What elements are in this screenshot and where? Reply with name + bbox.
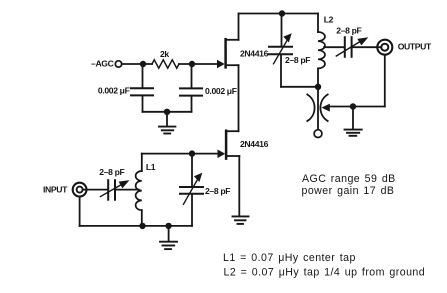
capacitor C1 bottom stub: [142, 96, 144, 112]
node output ground junction: [350, 103, 356, 109]
node tank top junction: [189, 150, 195, 156]
inductor L2 top lead: [317, 14, 319, 33]
svg-text:0.002 μF: 0.002 μF: [98, 85, 130, 95]
capacitor C3 2-8 pF drain tank: top stub: [281, 14, 283, 46]
wire C3 bottom to L2 bottom node: [281, 86, 318, 88]
feedthrough capacitor center lead: [317, 87, 319, 130]
node top rail junction: [279, 10, 285, 16]
wire C5 to L1 tap: [116, 189, 139, 191]
svg-text:2N4416: 2N4416: [240, 49, 269, 59]
svg-text:2N4416: 2N4416: [240, 139, 269, 149]
connector INPUT jack: [73, 183, 87, 197]
transistor Q2 drain stub: [226, 130, 238, 132]
wire AGC bypass rail: [143, 111, 192, 113]
transistor Q2 channel bar: [225, 131, 228, 159]
inductor L1 coil: [136, 171, 142, 210]
svg-text:INPUT: INPUT: [43, 184, 68, 194]
node L2 bottom junction: [315, 84, 321, 90]
svg-text:2–8 pF: 2–8 pF: [205, 186, 230, 196]
capacitor C3 adjust arrow: [274, 41, 288, 64]
wire output ground return: [329, 106, 385, 108]
wire Q2 source to ground: [238, 156, 240, 216]
wire AGC terminal to resistor: [122, 63, 152, 65]
svg-text:L1 = 0.07 μHy center tap: L1 = 0.07 μHy center tap: [223, 252, 356, 264]
svg-text:–AGC: –AGC: [91, 59, 114, 69]
node upper gate junction: [189, 61, 195, 67]
arrow into feedthrough: [322, 104, 330, 112]
transistor Q1 drain stub: [226, 39, 239, 41]
wire L1 top to gate node: [142, 153, 192, 155]
inductor L2 bottom lead: [317, 68, 319, 86]
wire Q1 source to Q2 drain: [238, 65, 240, 131]
transistor Q1 source stub: [226, 64, 239, 66]
ground Q2 source: [233, 215, 249, 217]
capacitor C1 plates: [131, 87, 153, 89]
AGC input terminal: [115, 61, 121, 67]
wire resistor to Q1 gate: [179, 63, 218, 65]
ground output: [352, 107, 354, 130]
capacitor C4 adjust arrow: [336, 41, 361, 56]
node L1 bottom junction: [139, 223, 145, 229]
svg-text:OUTPUT: OUTPUT: [398, 41, 432, 51]
capacitor C2 bottom stub: [191, 97, 193, 112]
wire C4 to output connector: [352, 46, 381, 48]
capacitor C3 bottom stub: [280, 55, 282, 87]
inductor L1 bottom lead: [141, 210, 143, 226]
svg-text:2–8 pF: 2–8 pF: [285, 55, 310, 65]
capacitor C6 bottom stub: [191, 195, 193, 226]
connector OUTPUT jack: [377, 40, 392, 55]
transistor Q2 source stub: [226, 155, 239, 157]
capacitor C1 0.002 uF left: top stub: [142, 64, 144, 87]
transistor Q2 2N4416 gate arrow: [218, 150, 226, 159]
capacitor C6 2-8 pF tank: top stub: [191, 154, 193, 187]
capacitor C3 plates: [269, 46, 292, 48]
wire gate node to Q2 gate: [192, 153, 218, 155]
transistor Q1 2N4416 gate arrow: [217, 60, 225, 69]
wire input jack to capacitor: [83, 189, 108, 191]
resistor 2k: [152, 60, 179, 68]
capacitor C5 2-8 pF input plates: [107, 180, 109, 200]
ground AGC: [166, 112, 168, 126]
ground input: [168, 226, 170, 241]
capacitor C5 adjust arrow: [100, 184, 122, 196]
svg-text:L2: L2: [324, 14, 334, 24]
svg-text:0.002 μF: 0.002 μF: [205, 86, 237, 96]
wire Q1 drain to top rail: [238, 14, 240, 40]
capacitor C6 adjust arrow: [184, 180, 198, 205]
inductor L1 top lead: [141, 154, 143, 171]
terminal supply open circle: [314, 130, 322, 138]
wire top rail: [239, 13, 319, 15]
capacitor C6 plates: [180, 186, 203, 188]
feedthrough capacitor right arc: [320, 95, 327, 122]
svg-text:2–8 pF: 2–8 pF: [336, 25, 361, 35]
wire input bottom rail: [80, 225, 192, 227]
node left RC junction: [140, 61, 146, 67]
feedthrough capacitor left arc: [307, 95, 314, 122]
svg-text:L2 = 0.07 μHy tap 1/4 up from: L2 = 0.07 μHy tap 1/4 up from ground: [224, 267, 426, 279]
capacitor C4 2-8 pF output plates: [344, 37, 346, 57]
svg-text:2–8 pF: 2–8 pF: [99, 167, 124, 177]
capacitor C2 plates: [180, 87, 202, 89]
inductor L2 coil: [318, 32, 325, 68]
svg-text:AGC range 59 dB: AGC range 59 dB: [302, 173, 396, 185]
svg-text:power gain 17 dB: power gain 17 dB: [302, 185, 395, 197]
wire output shield down: [384, 55, 386, 106]
node AGC bypass junction: [164, 109, 170, 115]
wire L2 tap to output capacitor: [324, 46, 344, 48]
node input ground junction: [165, 223, 171, 229]
svg-text:L1: L1: [146, 162, 156, 172]
transistor Q1 channel bar: [224, 39, 227, 67]
wire input shield down: [79, 197, 81, 226]
capacitor C2 0.002 uF right: top stub: [191, 64, 193, 88]
svg-text:2k: 2k: [160, 49, 169, 59]
